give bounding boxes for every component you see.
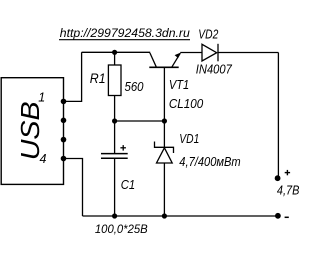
wire bottom rail [83, 215, 279, 217]
node - output terminal [275, 213, 281, 219]
wire R1 top lead [114, 52, 116, 65]
svg-text:C1: C1 [121, 177, 135, 192]
+ output polarity sign [285, 170, 290, 175]
USB connector X1 [1, 78, 63, 185]
pin 1 dot [61, 99, 67, 105]
pin 4 dot [61, 156, 67, 162]
svg-text:VT1: VT1 [169, 78, 189, 92]
URL label http://299792458.3dn.ru [59, 26, 190, 40]
wire top rail [82, 51, 151, 53]
pin 2 dot [61, 118, 67, 124]
pin 3 dot [61, 137, 67, 143]
node base/VD1 junction [162, 118, 167, 123]
wire pin4 to bottom rail [64, 159, 83, 217]
wire base net horizontal [115, 120, 165, 122]
resistor R1 [108, 65, 121, 96]
wire pin1 to top rail [64, 52, 82, 101]
node + output terminal [275, 175, 281, 181]
svg-text:4,7/400мВт: 4,7/400мВт [179, 155, 240, 169]
zener diode VD1 [155, 121, 174, 216]
svg-text:CL100: CL100 [169, 97, 203, 111]
svg-text:R1: R1 [90, 71, 106, 86]
svg-text:IN4007: IN4007 [196, 63, 233, 77]
svg-text:VD2: VD2 [198, 26, 219, 41]
C1 polarity + [120, 145, 126, 151]
node top rail / R1 junction [112, 50, 117, 55]
capacitor C1 [101, 121, 128, 216]
- output polarity sign [285, 216, 289, 218]
svg-text:4,7В: 4,7В [277, 182, 300, 197]
svg-text:560: 560 [125, 80, 144, 94]
wire VD2 to right drop [218, 52, 278, 54]
wire right drop to + terminal [277, 53, 279, 179]
svg-text:100,0*25В: 100,0*25В [95, 222, 148, 236]
wire emitter to VD2 [180, 52, 202, 54]
node C1 bottom junction [112, 213, 117, 218]
node VD1 bottom junction [162, 213, 167, 218]
node R1/C1/base junction [112, 118, 117, 123]
svg-text:1: 1 [38, 91, 45, 105]
svg-text:4: 4 [40, 152, 47, 166]
svg-text:http://299792458.3dn.ru: http://299792458.3dn.ru [60, 26, 190, 40]
transistor VT1 [149, 53, 181, 122]
svg-text:VD1: VD1 [179, 131, 199, 146]
wire R1 bottom lead [114, 96, 116, 122]
diode VD2 [202, 44, 218, 62]
